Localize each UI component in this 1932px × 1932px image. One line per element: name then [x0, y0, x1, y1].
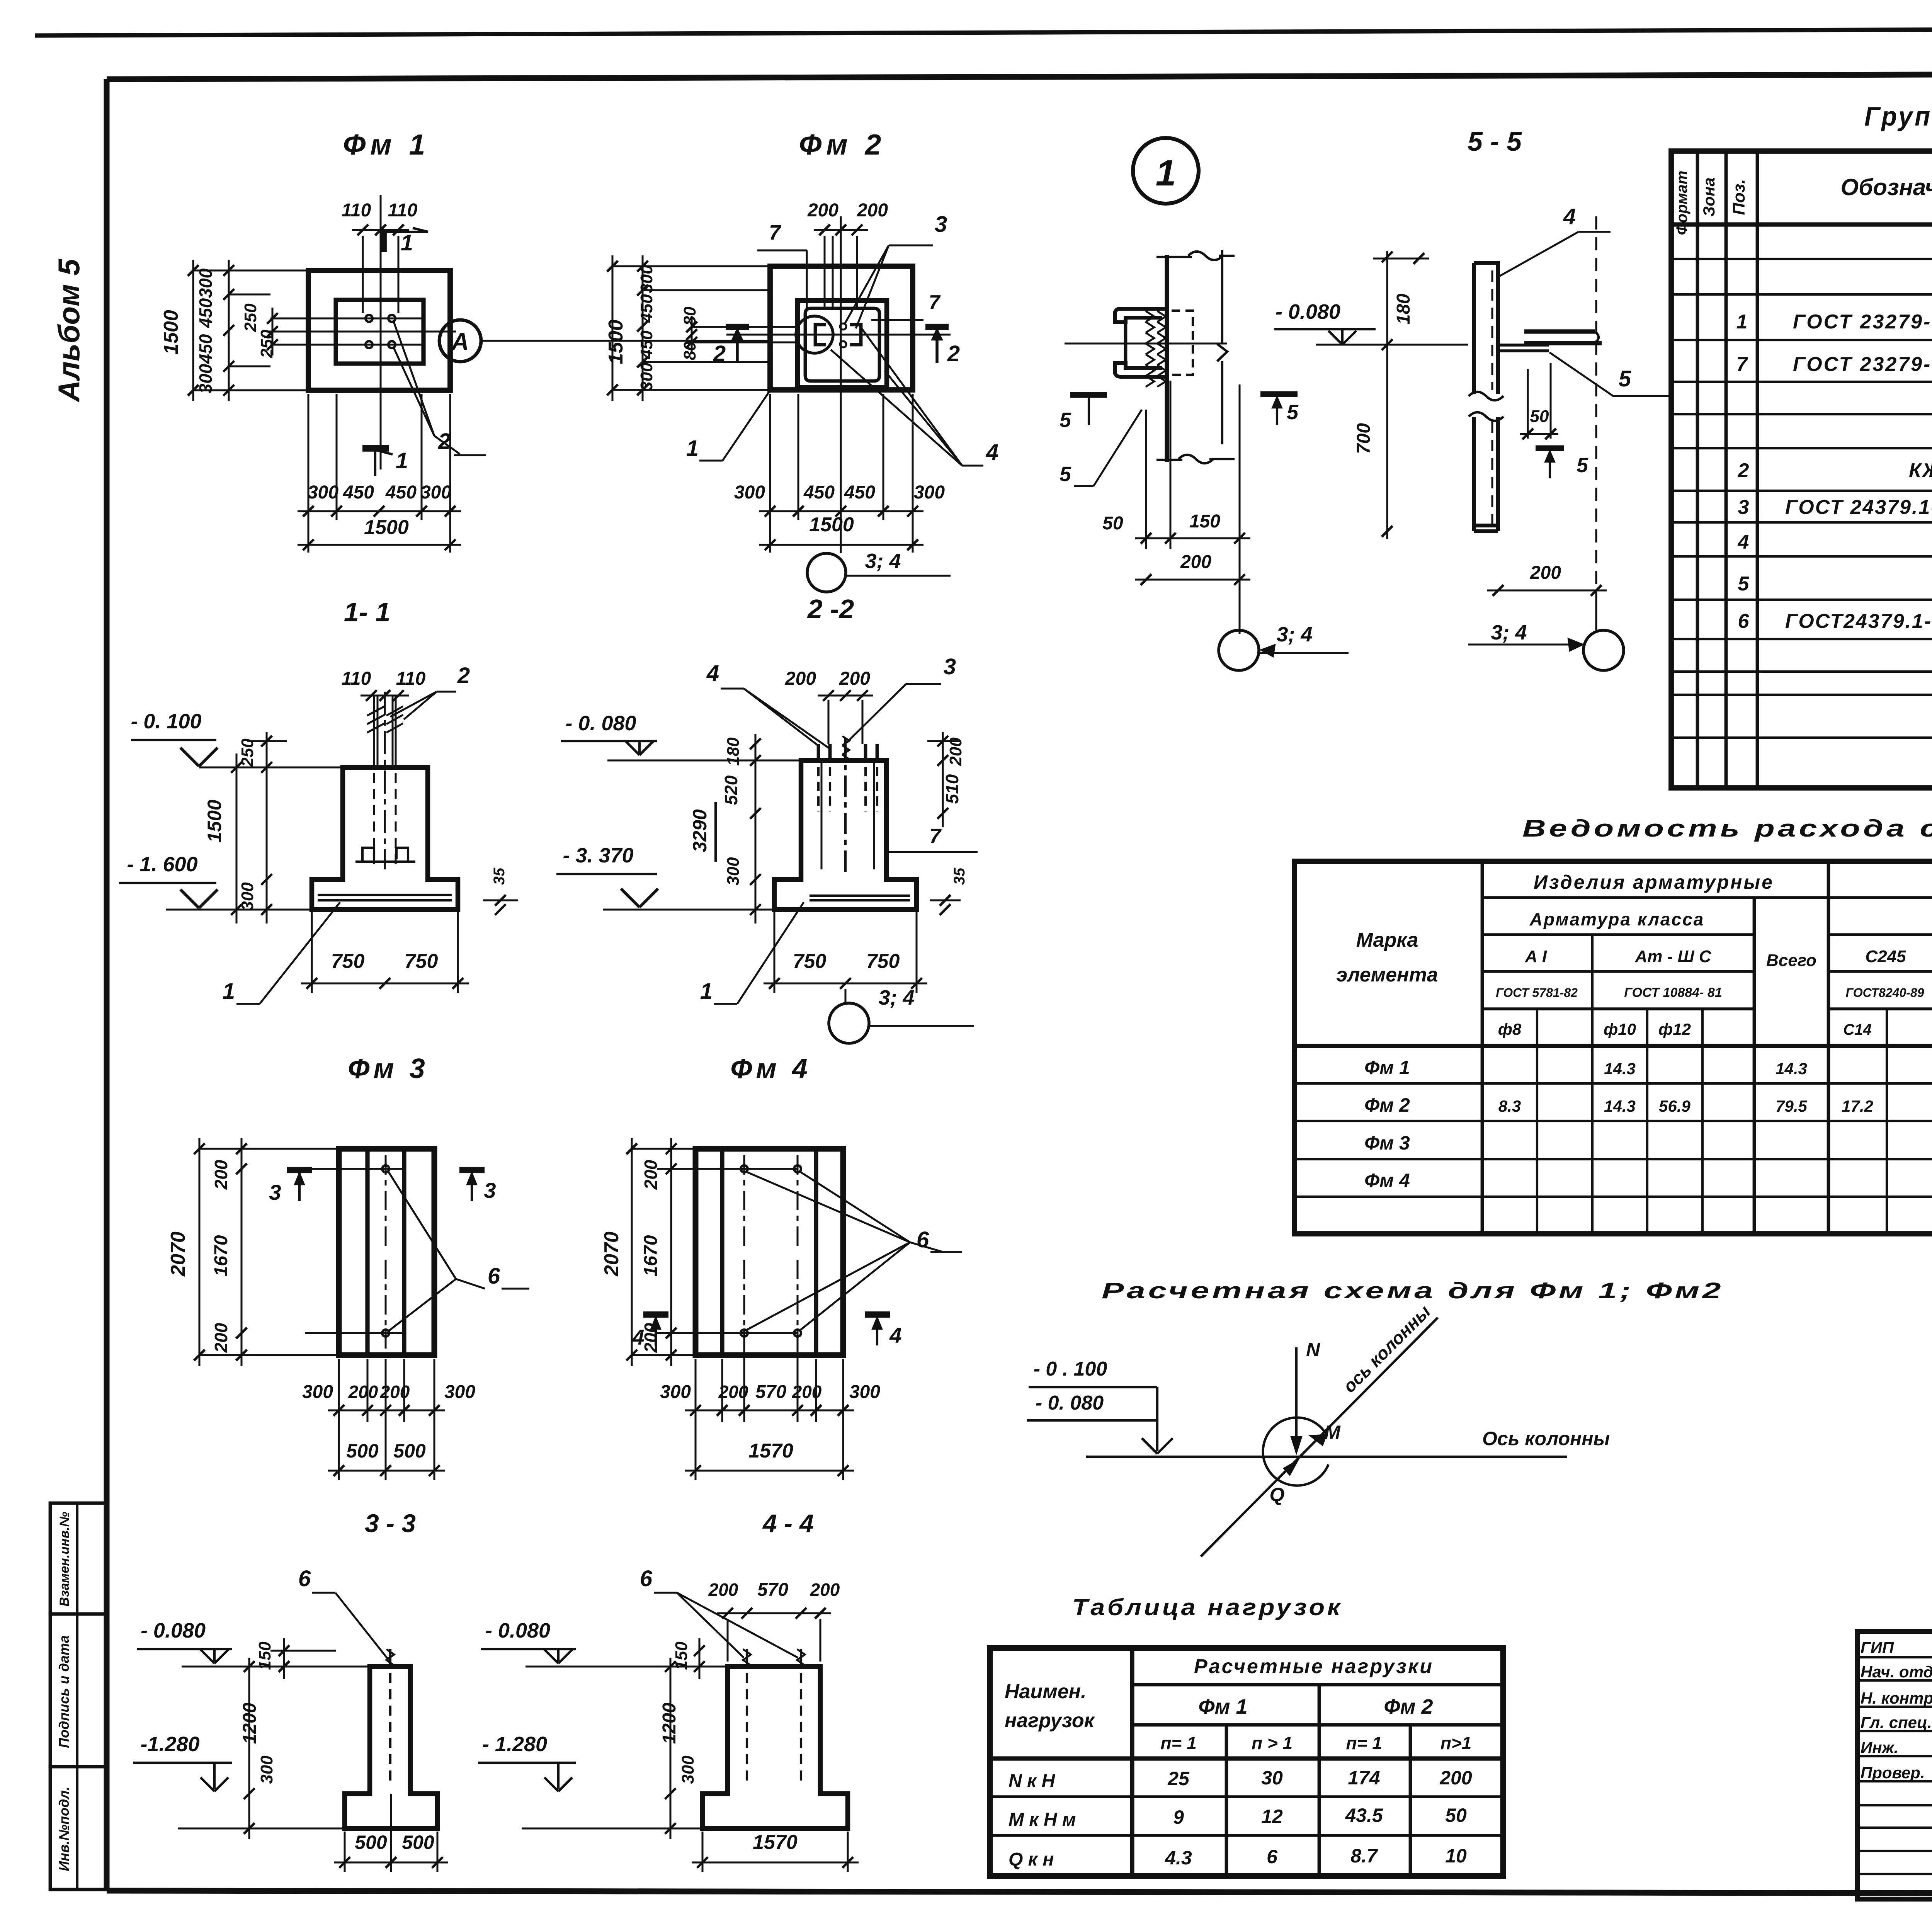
svg-text:300: 300	[444, 1382, 475, 1402]
svg-text:Фм 2: Фм 2	[1384, 1695, 1433, 1718]
svg-text:N: N	[1306, 1339, 1320, 1361]
FM4 bolt	[794, 1330, 801, 1337]
svg-text:110: 110	[396, 668, 426, 689]
svg-text:Групповая спецификация для мон: Групповая спецификация для монолитных эл…	[1864, 101, 1932, 131]
svg-text:Фм 4: Фм 4	[1364, 1170, 1410, 1191]
main title block	[1857, 1631, 1932, 1899]
svg-text:3290: 3290	[689, 809, 711, 852]
svg-text:1: 1	[1736, 311, 1748, 333]
svg-text:9: 9	[1173, 1806, 1184, 1828]
svg-text:Взамен.инв.№: Взамен.инв.№	[57, 1512, 72, 1606]
FM2 outer square	[770, 266, 913, 390]
svg-text:14.3: 14.3	[1604, 1060, 1636, 1078]
5-5 plate dashed line	[1492, 270, 1493, 390]
node1 hidden plate	[1172, 311, 1193, 375]
FM2 inner plate	[805, 308, 879, 381]
svg-text:N к Н: N к Н	[1009, 1771, 1056, 1791]
svg-text:Таблица нагрузок: Таблица нагрузок	[1072, 1594, 1343, 1620]
svg-text:17.2: 17.2	[1842, 1097, 1873, 1115]
svg-text:М: М	[1324, 1422, 1341, 1443]
svg-text:300: 300	[196, 268, 216, 298]
1-1 left dims	[266, 732, 268, 923]
svg-text:1570: 1570	[748, 1440, 793, 1462]
FM3 left dims	[199, 1138, 201, 1366]
svg-text:35: 35	[951, 867, 968, 885]
svg-text:Всего: Всего	[1766, 951, 1816, 970]
svg-text:700: 700	[1354, 423, 1374, 454]
FM1 horizontal axis	[267, 331, 456, 333]
svg-text:-1.280: -1.280	[140, 1733, 199, 1756]
svg-text:Фм 2: Фм 2	[1364, 1094, 1410, 1116]
svg-text:ГОСТ 23279-85: ГОСТ 23279-85	[1793, 311, 1932, 333]
1-1 pedestal	[312, 767, 458, 910]
svg-text:450: 450	[844, 482, 875, 503]
svg-text:180: 180	[1393, 294, 1414, 325]
svg-text:1500: 1500	[364, 516, 409, 539]
3-3 left dims	[283, 1638, 285, 1679]
svg-text:500: 500	[346, 1440, 379, 1462]
svg-text:110: 110	[342, 668, 371, 689]
svg-text:6: 6	[298, 1566, 311, 1591]
svg-text:элемента: элемента	[1336, 964, 1438, 986]
svg-text:6: 6	[1267, 1846, 1278, 1867]
svg-text:300: 300	[849, 1382, 880, 1402]
node1 flag 5 left	[1070, 392, 1107, 398]
5-5 plate	[1474, 263, 1498, 526]
FM2 bottom dims	[769, 394, 771, 553]
svg-text:200: 200	[785, 668, 816, 689]
svg-text:4: 4	[1563, 204, 1576, 229]
FM1 left dims	[192, 260, 194, 401]
svg-text:2: 2	[457, 663, 470, 688]
svg-text:300: 300	[734, 482, 765, 503]
svg-text:Фм 4: Фм 4	[730, 1053, 811, 1084]
svg-text:450: 450	[637, 330, 656, 359]
svg-text:7: 7	[929, 291, 941, 314]
svg-text:79.5: 79.5	[1776, 1097, 1807, 1115]
svg-text:Инв.№подл.: Инв.№подл.	[56, 1786, 72, 1871]
svg-text:2 -2: 2 -2	[807, 594, 854, 624]
svg-text:1500: 1500	[160, 310, 182, 355]
svg-text:300: 300	[660, 1382, 691, 1402]
svg-text:5: 5	[1577, 454, 1588, 477]
svg-text:200: 200	[810, 1580, 840, 1600]
svg-text:510: 510	[942, 774, 962, 804]
2-2 pedestal	[774, 760, 917, 910]
svg-text:1200: 1200	[240, 1702, 260, 1744]
section mark 1 top	[381, 230, 387, 252]
svg-text:Фм 3: Фм 3	[1364, 1132, 1410, 1154]
svg-text:3: 3	[1738, 496, 1749, 519]
FM1 vertical axis	[380, 195, 382, 469]
svg-text:Подпись и дата: Подпись и дата	[56, 1635, 72, 1748]
svg-text:3; 4: 3; 4	[1276, 623, 1312, 646]
svg-text:Провер.: Провер.	[1861, 1764, 1925, 1782]
svg-text:180: 180	[724, 737, 743, 766]
node1 flag 5 center	[1260, 391, 1298, 397]
svg-text:250: 250	[241, 303, 260, 332]
svg-text:3: 3	[269, 1180, 281, 1204]
svg-text:Ведомость расхода ст: Ведомость расхода стали на элемент, кг	[1522, 815, 1932, 842]
svg-text:2: 2	[947, 341, 960, 366]
svg-text:80: 80	[680, 341, 699, 360]
FM2 horizontal axis	[726, 334, 951, 336]
svg-text:300: 300	[257, 1755, 276, 1784]
svg-text:35: 35	[491, 867, 508, 885]
svg-text:4 - 4: 4 - 4	[762, 1509, 814, 1537]
svg-text:50: 50	[1102, 513, 1123, 534]
svg-text:Нач. отд.: Нач. отд.	[1861, 1663, 1932, 1681]
svg-text:56.9: 56.9	[1659, 1097, 1690, 1115]
svg-text:80: 80	[680, 306, 699, 325]
svg-text:Изделия арматурные: Изделия арматурные	[1534, 871, 1774, 893]
svg-text:450: 450	[196, 298, 216, 328]
svg-text:4: 4	[706, 661, 719, 686]
svg-text:3: 3	[944, 654, 956, 679]
svg-text:25: 25	[1167, 1768, 1190, 1789]
svg-text:750: 750	[331, 950, 365, 973]
1-1 bottom dims	[311, 912, 313, 993]
FM3 axis	[385, 1155, 387, 1248]
svg-text:Фм 1: Фм 1	[1364, 1057, 1410, 1078]
5-5 circle 3;4	[1583, 630, 1624, 670]
svg-text:500: 500	[355, 1832, 387, 1853]
svg-text:- 1. 600: - 1. 600	[127, 853, 197, 876]
section mark 3 left	[287, 1167, 312, 1173]
svg-text:8.7: 8.7	[1350, 1845, 1378, 1867]
force Q	[1284, 1460, 1298, 1475]
section mark 1 bottom	[362, 445, 389, 452]
svg-text:300: 300	[196, 364, 216, 393]
section mark 4 left	[643, 1311, 668, 1318]
svg-text:Обозначение: Обозначение	[1840, 174, 1932, 200]
svg-text:50: 50	[1530, 407, 1549, 426]
svg-text:Ат - Ш С: Ат - Ш С	[1634, 947, 1711, 966]
svg-text:Формат: Формат	[1673, 171, 1690, 235]
svg-text:1500: 1500	[204, 799, 225, 842]
svg-text:12: 12	[1261, 1806, 1283, 1827]
svg-text:300: 300	[724, 857, 743, 886]
svg-text:2: 2	[1738, 459, 1749, 482]
svg-text:Фм 1: Фм 1	[1198, 1695, 1247, 1718]
3-3 bottom dims	[344, 1832, 346, 1872]
svg-text:Фм 2: Фм 2	[799, 128, 886, 161]
svg-text:5: 5	[1738, 573, 1750, 595]
svg-text:п= 1: п= 1	[1346, 1733, 1382, 1753]
svg-text:150: 150	[1189, 511, 1220, 532]
svg-text:200: 200	[792, 1382, 822, 1402]
svg-text:200: 200	[807, 200, 838, 221]
svg-text:250: 250	[257, 330, 276, 359]
svg-text:7: 7	[1736, 353, 1748, 376]
svg-text:200: 200	[1180, 552, 1211, 572]
svg-text:- 0. 080: - 0. 080	[1036, 1392, 1104, 1414]
svg-text:1: 1	[396, 448, 408, 473]
svg-text:6: 6	[1738, 610, 1750, 633]
ground line	[1086, 1456, 1567, 1458]
svg-text:3 - 3: 3 - 3	[365, 1509, 416, 1537]
svg-text:Расчетные нагрузки: Расчетные нагрузки	[1194, 1655, 1434, 1678]
svg-text:450: 450	[803, 482, 835, 503]
4-4 left dims	[699, 1638, 701, 1679]
svg-text:Фм 3: Фм 3	[348, 1053, 429, 1084]
svg-text:750: 750	[793, 950, 827, 973]
node 1 detail	[1133, 138, 1199, 204]
svg-text:- 0. 080: - 0. 080	[565, 712, 636, 735]
svg-text:п > 1: п > 1	[1252, 1733, 1293, 1753]
svg-text:200: 200	[857, 200, 888, 221]
axis A circle	[439, 320, 481, 362]
node1 weld hatch	[1146, 311, 1154, 322]
3-3 rebar dashed	[389, 1673, 391, 1785]
svg-text:ф10: ф10	[1604, 1020, 1636, 1038]
svg-text:300: 300	[302, 1382, 333, 1402]
node1 column face	[1165, 255, 1169, 462]
svg-text:А I: А I	[1525, 947, 1547, 966]
svg-text:50: 50	[1445, 1804, 1467, 1826]
svg-text:4: 4	[1738, 531, 1749, 553]
svg-text:570: 570	[757, 1580, 788, 1600]
svg-text:4: 4	[986, 440, 998, 465]
5-5 dims	[1386, 251, 1388, 539]
svg-text:200: 200	[1530, 563, 1561, 583]
svg-text:- 3. 370: - 3. 370	[563, 844, 633, 867]
FM2 left dims	[612, 255, 614, 401]
svg-text:Фм 1: Фм 1	[343, 128, 430, 161]
svg-text:150: 150	[672, 1641, 691, 1670]
FM1 bolt	[388, 341, 395, 348]
4-4 bottom dims	[702, 1832, 704, 1872]
FM2 channel left	[815, 325, 826, 345]
svg-text:200: 200	[380, 1382, 410, 1402]
FM1 bottom dims	[308, 394, 310, 553]
svg-text:500: 500	[402, 1832, 434, 1853]
FM1 bolt	[388, 315, 395, 322]
FM4 bolt	[741, 1330, 748, 1337]
5-5 bolt axis dashed	[1595, 216, 1597, 590]
svg-text:200: 200	[946, 737, 965, 766]
svg-text:С14: С14	[1843, 1021, 1871, 1038]
svg-text:300: 300	[420, 482, 451, 503]
svg-text:- 1.280: - 1.280	[482, 1733, 547, 1756]
svg-text:110: 110	[342, 200, 371, 221]
node1 channel top	[1115, 309, 1169, 322]
svg-text:200: 200	[708, 1580, 738, 1600]
FM2 vertical axis	[840, 216, 842, 549]
svg-text:ГОСТ24379.1-80: ГОСТ24379.1-80	[1785, 610, 1932, 633]
section mark 2 right	[925, 324, 949, 330]
svg-text:200: 200	[641, 1323, 661, 1353]
svg-text:М к Н м: М к Н м	[1009, 1810, 1076, 1830]
svg-text:- 0. 100: - 0. 100	[131, 710, 201, 733]
svg-text:1: 1	[223, 979, 235, 1004]
FM4 left dims	[631, 1138, 633, 1366]
FM1 leader 2	[393, 321, 434, 436]
svg-text:4: 4	[889, 1323, 901, 1347]
svg-text:ГОСТ8240-89: ГОСТ8240-89	[1846, 986, 1924, 1000]
FM4 bolt	[741, 1165, 748, 1172]
svg-text:п>1: п>1	[1440, 1733, 1472, 1753]
svg-text:8.3: 8.3	[1498, 1097, 1521, 1115]
2-2 left dims	[755, 734, 757, 923]
1-1 anchor hook	[362, 848, 374, 862]
svg-text:14.3: 14.3	[1604, 1097, 1636, 1115]
FM4 leader 6	[746, 1172, 910, 1242]
svg-text:1500: 1500	[809, 514, 854, 536]
svg-text:Ось колонны: Ось колонны	[1482, 1428, 1610, 1449]
svg-text:750: 750	[405, 950, 438, 973]
svg-text:1: 1	[401, 230, 413, 255]
FM3 bottom dims	[338, 1359, 340, 1480]
svg-text:3: 3	[935, 212, 947, 237]
svg-text:ГОСТ 5781-82: ГОСТ 5781-82	[1496, 986, 1578, 1000]
svg-text:5: 5	[1287, 401, 1299, 424]
svg-text:Марка: Марка	[1356, 929, 1418, 951]
svg-text:1500: 1500	[605, 320, 627, 364]
svg-text:450: 450	[343, 482, 374, 503]
section mark 2 left	[726, 324, 749, 330]
svg-text:150: 150	[255, 1641, 274, 1670]
FM4 bottom dims	[695, 1359, 697, 1480]
FM2 middle square	[798, 301, 887, 388]
svg-text:7: 7	[929, 825, 942, 848]
svg-text:4.3: 4.3	[1165, 1847, 1192, 1869]
1-1 axis	[384, 692, 386, 869]
svg-text:1670: 1670	[211, 1235, 231, 1276]
svg-text:Инж.: Инж.	[1861, 1738, 1898, 1757]
FM2 circle detail	[796, 316, 833, 353]
svg-text:5: 5	[1060, 408, 1071, 432]
3-3 rebar squiggle	[386, 1649, 394, 1665]
svg-text:Зона: Зона	[1700, 177, 1718, 216]
svg-text:200: 200	[348, 1382, 378, 1402]
svg-text:ГОСТ 10884- 81: ГОСТ 10884- 81	[1624, 985, 1722, 1000]
svg-text:Поз.: Поз.	[1730, 179, 1748, 215]
5-5 flag 5 bottom	[1536, 446, 1564, 451]
svg-text:3; 4: 3; 4	[878, 986, 914, 1009]
svg-text:7: 7	[769, 221, 782, 244]
svg-text:Расчетная схема для: Расчетная схема для Фм 1; Фм2	[1102, 1278, 1724, 1303]
svg-text:ф8: ф8	[1498, 1020, 1522, 1038]
svg-text:174: 174	[1348, 1767, 1380, 1789]
svg-text:1: 1	[686, 436, 699, 461]
svg-text:- 0 . 100: - 0 . 100	[1034, 1358, 1107, 1380]
svg-text:570: 570	[755, 1382, 786, 1402]
svg-text:5 - 5: 5 - 5	[1468, 126, 1522, 156]
FM1 outer square	[308, 270, 450, 390]
svg-text:3: 3	[484, 1178, 496, 1202]
node1 channel bottom	[1115, 363, 1169, 377]
FM4 outer rect	[696, 1149, 843, 1355]
FM4 bolt	[794, 1165, 801, 1172]
svg-text:Альбом 5: Альбом 5	[52, 258, 86, 402]
svg-text:200: 200	[839, 668, 870, 689]
svg-text:1670: 1670	[641, 1235, 661, 1276]
svg-text:5: 5	[1619, 366, 1631, 391]
FM3 leader 6	[388, 1172, 456, 1279]
svg-text:Q к н: Q к н	[1009, 1849, 1054, 1870]
drawing frame	[107, 73, 1932, 79]
moment arc M	[1263, 1418, 1328, 1486]
5-5 shelf	[1524, 329, 1595, 333]
column axis diagonal	[1201, 1318, 1438, 1556]
1-1 rebar pins	[373, 695, 375, 767]
svg-text:КЖ.И А2;А3: КЖ.И А2;А3	[1909, 459, 1932, 482]
force N	[1295, 1347, 1298, 1452]
FM1 bolt	[366, 341, 372, 348]
svg-text:300: 300	[308, 482, 338, 503]
svg-text:ГОСТ 23279-85: ГОСТ 23279-85	[1793, 353, 1932, 376]
node circle 3;4 below FM2	[807, 553, 846, 592]
FM1 bolt	[366, 315, 372, 322]
svg-text:3; 4: 3; 4	[865, 549, 901, 573]
svg-text:1570: 1570	[753, 1831, 798, 1854]
svg-text:ГОСТ 24379.1-80: ГОСТ 24379.1-80	[1785, 496, 1932, 519]
svg-text:1200: 1200	[659, 1702, 680, 1744]
svg-text:300: 300	[637, 265, 656, 293]
svg-text:6: 6	[917, 1227, 929, 1252]
svg-text:п= 1: п= 1	[1160, 1733, 1196, 1753]
svg-text:300: 300	[637, 362, 656, 391]
svg-text:1: 1	[700, 979, 713, 1004]
svg-text:200: 200	[211, 1323, 231, 1353]
section mark 3 right	[459, 1167, 485, 1173]
svg-text:ГИП: ГИП	[1861, 1638, 1894, 1656]
svg-text:Арматура класса: Арматура класса	[1529, 909, 1705, 929]
svg-text:- 0.080: - 0.080	[141, 1619, 206, 1642]
svg-text:Q: Q	[1270, 1484, 1285, 1505]
svg-text:200: 200	[211, 1160, 231, 1190]
svg-text:300: 300	[914, 482, 945, 503]
svg-text:520: 520	[721, 775, 741, 805]
svg-text:14.3: 14.3	[1776, 1060, 1807, 1078]
node1 dims	[1145, 410, 1147, 549]
section mark 4 right	[865, 1311, 890, 1318]
svg-text:- 0.080: - 0.080	[485, 1619, 550, 1642]
svg-text:2070: 2070	[600, 1231, 623, 1277]
svg-text:Наимен.: Наимен.	[1005, 1680, 1086, 1703]
svg-text:30: 30	[1261, 1767, 1283, 1789]
svg-text:500: 500	[393, 1440, 426, 1462]
3-3 pedestal	[345, 1667, 437, 1828]
2-2 anchor bolts top	[817, 744, 820, 760]
svg-text:С245: С245	[1865, 947, 1906, 966]
svg-text:200: 200	[641, 1160, 661, 1190]
svg-text:200: 200	[718, 1382, 748, 1402]
2-2 circle 3;4	[829, 1003, 869, 1043]
FM1 anchor square	[336, 300, 423, 364]
svg-text:6: 6	[640, 1566, 653, 1591]
svg-text:450: 450	[637, 294, 656, 323]
svg-text:- 0.080: - 0.080	[1276, 300, 1340, 323]
svg-text:2070: 2070	[167, 1231, 189, 1277]
svg-text:200: 200	[1439, 1767, 1472, 1789]
svg-text:1- 1: 1- 1	[344, 597, 391, 627]
svg-text:5: 5	[1060, 463, 1071, 486]
2-2 axis	[844, 738, 847, 873]
svg-text:Гл. спец.: Гл. спец.	[1861, 1713, 1932, 1731]
left margin stamp boxes	[50, 1503, 107, 1614]
FM2 channel right	[850, 325, 861, 345]
svg-text:6: 6	[488, 1264, 500, 1289]
svg-text:300: 300	[679, 1755, 697, 1784]
svg-text:нагрузок: нагрузок	[1005, 1709, 1095, 1732]
top rule	[35, 27, 1932, 36]
svg-text:Н. контр.: Н. контр.	[1861, 1689, 1932, 1707]
4-4 pedestal	[702, 1667, 848, 1828]
node1 circle 3;4	[1219, 630, 1259, 670]
svg-text:450: 450	[385, 482, 417, 503]
